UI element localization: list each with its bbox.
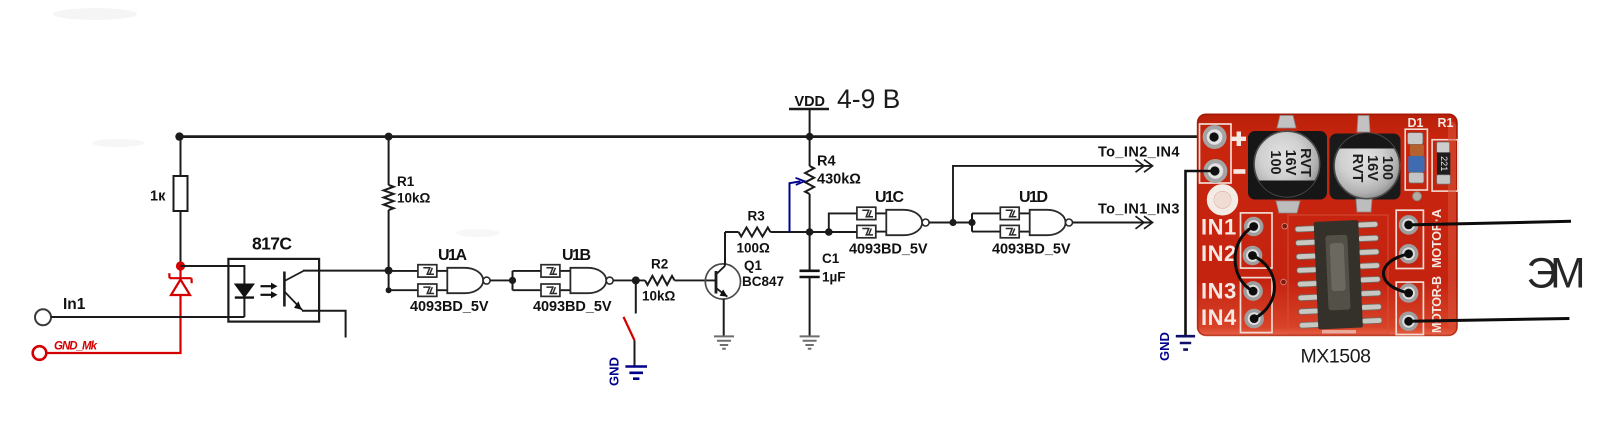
pad MOTOR A2: [1399, 244, 1419, 264]
gate U1D: [992, 189, 1073, 258]
svg-text:R1: R1: [397, 174, 415, 189]
svg-text:4093BD_5V: 4093BD_5V: [992, 242, 1071, 258]
arrow To_IN1_IN3: [1098, 202, 1180, 229]
node rail junction left: [175, 132, 183, 140]
terminal GND_Mk: [33, 341, 98, 360]
svg-text:100: 100: [1267, 150, 1283, 174]
svg-text:100Ω: 100Ω: [737, 241, 771, 256]
via below D1: [1413, 192, 1422, 201]
pad IN1: [1244, 217, 1264, 237]
wire Q1 collector: [724, 232, 726, 266]
resistor 1k: [150, 176, 188, 211]
node R4/C1 junction: [806, 228, 833, 236]
svg-text:GND: GND: [607, 357, 622, 386]
label +: [1232, 132, 1247, 147]
svg-text:817C: 817C: [252, 234, 292, 254]
pad IN2: [1243, 246, 1263, 266]
svg-text:ЭМ: ЭМ: [1527, 251, 1586, 298]
svg-text:To_IN2_IN4: To_IN2_IN4: [1098, 145, 1180, 161]
svg-text:16V: 16V: [1364, 155, 1380, 181]
gate U1C: [849, 189, 929, 258]
wire arc IN2-IN4: [1248, 251, 1274, 323]
wire U1A out: [490, 279, 512, 281]
label MX1508: [1301, 346, 1372, 368]
wire Q1 emitter: [723, 299, 725, 337]
ground Q1: [714, 336, 734, 348]
resistor R2: [642, 257, 676, 304]
wire U1D out To_IN1_IN3: [1073, 222, 1153, 224]
wire arc IN1-IN3: [1235, 222, 1258, 295]
transistor Q1: [705, 258, 784, 299]
svg-text:MOTOR·A: MOTOR·A: [1430, 209, 1444, 268]
wire emitter stub: [302, 311, 346, 338]
electrolytic capacitor left: [1252, 131, 1322, 198]
diode D zener (red): [169, 266, 191, 295]
svg-text:BC847: BC847: [742, 274, 784, 289]
svg-text:1к: 1к: [150, 189, 166, 205]
electrolytic capacitor right: [1332, 132, 1402, 199]
MX1508 PCB board: [1197, 114, 1458, 337]
wire 1k top: [180, 137, 182, 176]
wire arc A2-B1: [1383, 249, 1413, 297]
svg-text:4093BD_5V: 4093BD_5V: [533, 299, 612, 315]
switch to GND (red lever): [624, 280, 636, 366]
svg-text:IN2: IN2: [1201, 241, 1237, 266]
svg-text:IN4: IN4: [1201, 305, 1237, 330]
svg-text:221: 221: [1439, 156, 1449, 171]
svg-text:GND: GND: [1157, 332, 1172, 361]
label -: [1233, 169, 1245, 174]
gate U1A: [410, 247, 490, 315]
node diode junction (red): [176, 261, 185, 270]
svg-text:R2: R2: [651, 257, 668, 272]
resistor R1 on board (221): [1437, 116, 1454, 184]
terminal pad -: [1203, 159, 1227, 183]
node U1A input bar: [385, 267, 418, 294]
svg-text:In1: In1: [63, 296, 86, 313]
svg-text:R3: R3: [748, 209, 766, 224]
pad MOTOR A1: [1399, 215, 1419, 235]
silkscreen boxes and traces: [1200, 124, 1458, 335]
label MOTOR-B: [1430, 276, 1444, 333]
svg-text:D1: D1: [1408, 116, 1424, 130]
node rail junction R4: [806, 133, 814, 141]
svg-text:VDD: VDD: [795, 94, 826, 110]
svg-text:1µF: 1µF: [822, 270, 846, 285]
LED inside optocoupler: [235, 284, 254, 298]
wire U1B out: [613, 276, 645, 284]
terminal pad +: [1203, 125, 1227, 149]
light arrows: [261, 283, 278, 299]
electrolytic capacitor right base: [1330, 116, 1401, 213]
wire to To_IN2_IN4: [953, 166, 1152, 223]
wire collector to U1A input: [303, 270, 389, 272]
wire U1C out: [929, 219, 976, 226]
gate U1B: [533, 247, 613, 315]
svg-text:4-9 В: 4-9 В: [837, 84, 900, 114]
arrow To_IN2_IN4: [1098, 145, 1180, 173]
wire 1k bottom: [180, 211, 182, 266]
via near IN1: [1282, 223, 1288, 229]
ground GND (switch): [607, 357, 648, 386]
svg-text:U1A: U1A: [438, 247, 467, 264]
wire main VDD rail: [179, 135, 1213, 138]
diode D1 on board: [1408, 116, 1425, 183]
svg-text:GND_Mk: GND_Mk: [54, 341, 98, 353]
wire motor A1 to EM: [1404, 221, 1571, 230]
svg-text:4093BD_5V: 4093BD_5V: [410, 299, 489, 315]
svg-text:MOTOR-B: MOTOR-B: [1430, 276, 1444, 333]
node rail junction R1: [385, 133, 393, 141]
wire R2 to Q1 base: [675, 279, 717, 281]
svg-text:430kΩ: 430kΩ: [817, 172, 861, 188]
svg-text:100: 100: [1379, 156, 1395, 180]
smudge artifacts: [53, 8, 500, 237]
wiper arrow R4 (blue): [790, 178, 805, 232]
pad IN3: [1243, 281, 1263, 301]
ground C1: [800, 336, 820, 348]
svg-text:MX1508: MX1508: [1301, 346, 1372, 368]
mounting hole: [1210, 188, 1234, 212]
label MOTOR-A: [1430, 209, 1444, 268]
resistor R3: [725, 209, 770, 256]
svg-text:U1C: U1C: [875, 189, 904, 206]
svg-text:10kΩ: 10kΩ: [397, 191, 431, 206]
svg-text:IN3: IN3: [1201, 279, 1237, 304]
pad IN4: [1244, 309, 1264, 329]
svg-text:16V: 16V: [1282, 150, 1298, 176]
wire motor B2 to EM: [1404, 317, 1569, 326]
node U1B input bar: [509, 271, 541, 290]
svg-text:U1D: U1D: [1019, 189, 1048, 206]
svg-text:RVT: RVT: [1349, 154, 1365, 183]
wire diode to GND_Mk (red): [48, 295, 181, 353]
label EM motor: [1527, 251, 1586, 298]
node U1D input bar: [972, 213, 1000, 231]
phototransistor inside optocoupler: [284, 271, 303, 310]
wire R3 to node: [770, 231, 857, 233]
capacitor C1: [800, 232, 846, 336]
labels IN1-IN4: [1201, 215, 1237, 331]
ground GND (board): [1157, 332, 1195, 361]
resistor R4 (trimmer): [805, 137, 861, 232]
svg-text:IN1: IN1: [1201, 215, 1237, 240]
pad MOTOR B1: [1399, 283, 1419, 303]
label 4-9V: [837, 84, 900, 114]
via near IN3: [1281, 279, 1287, 285]
electrolytic capacitor left base: [1248, 116, 1327, 214]
wire - pad to GND: [1186, 166, 1220, 336]
pad MOTOR B2: [1399, 312, 1419, 332]
wire In1 to optocoupler: [51, 316, 244, 318]
svg-text:C1: C1: [822, 251, 840, 266]
svg-text:U1B: U1B: [562, 247, 591, 264]
wire rail to + pad: [1209, 132, 1218, 141]
svg-text:R4: R4: [817, 154, 836, 170]
power VDD: [789, 94, 829, 137]
svg-text:To_IN1_IN3: To_IN1_IN3: [1098, 202, 1180, 218]
board edge highlight: [1322, 122, 1456, 334]
svg-text:4093BD_5V: 4093BD_5V: [849, 242, 928, 258]
svg-text:Q1: Q1: [744, 258, 763, 273]
svg-text:R1: R1: [1438, 116, 1454, 130]
wire riser to U1C top input: [829, 213, 857, 232]
svg-text:10kΩ: 10kΩ: [642, 289, 676, 304]
IC MX1508 chip: [1295, 219, 1383, 330]
terminal In1: [35, 296, 86, 325]
wire anode to LED: [181, 266, 245, 317]
resistor R1: [384, 137, 431, 271]
op-amp U? optocoupler 817C box: [228, 234, 319, 322]
svg-text:RVT: RVT: [1297, 148, 1313, 177]
